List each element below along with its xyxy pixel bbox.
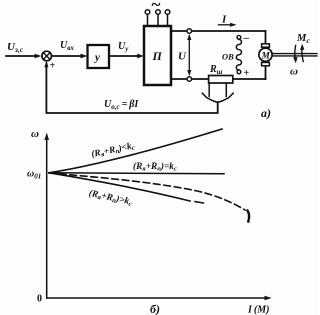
- wire motor armature bottom: [265, 66, 267, 79]
- motor M: [259, 48, 272, 61]
- node ω speed arrow: [294, 46, 297, 61]
- node U voltage arrow: [188, 37, 190, 74]
- wire feedback: [46, 63, 217, 113]
- svg-text:(Rя+Rп)=kс: (Rя+Rп)=kс: [133, 161, 177, 173]
- svg-text:Мс: Мс: [296, 33, 310, 45]
- svg-text:П: П: [152, 49, 163, 63]
- svg-text:а): а): [261, 106, 271, 120]
- svg-text:М: М: [261, 50, 271, 60]
- svg-text:б): б): [150, 302, 160, 315]
- shunt resistor Rш: [209, 76, 233, 84]
- svg-text:Uвх: Uвх: [60, 40, 74, 52]
- axis ω (vertical): [46, 137, 48, 298]
- wire bottom bus left: [171, 78, 209, 80]
- curve (Rя+Rп)>kс falling: [49, 173, 190, 201]
- svg-text:Rш: Rш: [209, 64, 223, 76]
- node dashed curve end arrow: [248, 211, 250, 222]
- svg-text:I (М): I (М): [247, 305, 269, 315]
- regulator block y: [88, 45, 110, 68]
- curve (Rя+Rп)<kс rising: [49, 129, 222, 173]
- svg-text:+: +: [50, 61, 56, 72]
- converter block П: [144, 26, 171, 85]
- node top terminal: [187, 29, 192, 34]
- winding ОВ coil: [236, 39, 241, 70]
- svg-text:y: y: [93, 52, 100, 64]
- svg-text:+: +: [244, 68, 250, 79]
- wire top bus: [171, 30, 266, 32]
- axis I (horizontal): [47, 297, 267, 299]
- wire motor armature top: [265, 31, 267, 44]
- svg-text:(Rя+Rп)>kс: (Rя+Rп)>kс: [88, 188, 133, 208]
- node bottom terminal: [187, 77, 192, 82]
- shaft: [272, 54, 317, 56]
- svg-text:Uо,с = βI: Uо,с = βI: [104, 99, 139, 111]
- tap contacts below shunt: [209, 83, 226, 97]
- winding ОВ terminal minus: [237, 35, 241, 39]
- curve (Rя+Rп)=kс flat: [49, 173, 224, 174]
- svg-text:I: I: [221, 14, 227, 26]
- curve dashed droop: [49, 173, 245, 210]
- wire junction to regulator y: [52, 55, 84, 57]
- svg-text:0: 0: [37, 294, 42, 305]
- svg-text:~: ~: [152, 0, 161, 14]
- summing junction: [42, 51, 52, 61]
- svg-text:Uy: Uy: [118, 41, 129, 53]
- svg-text:ω: ω: [290, 66, 298, 78]
- svg-text:ω: ω: [31, 128, 39, 140]
- svg-text:(Rя+Rп)<kс: (Rя+Rп)<kс: [90, 140, 135, 160]
- wire bottom bus right: [233, 78, 266, 80]
- svg-text:ω01: ω01: [27, 169, 41, 181]
- wire input to summing junction: [6, 55, 37, 57]
- wire regulator to converter: [109, 55, 140, 57]
- svg-text:U: U: [178, 51, 187, 63]
- svg-text:Uз,с: Uз,с: [7, 41, 24, 54]
- AC supply terminals: [148, 14, 168, 26]
- winding ОВ terminal plus: [237, 70, 241, 74]
- svg-text:–: –: [243, 32, 250, 44]
- svg-text:ОВ: ОВ: [222, 52, 234, 62]
- node Мс torque arrow: [302, 47, 303, 62]
- motor M brushes: [262, 44, 270, 47]
